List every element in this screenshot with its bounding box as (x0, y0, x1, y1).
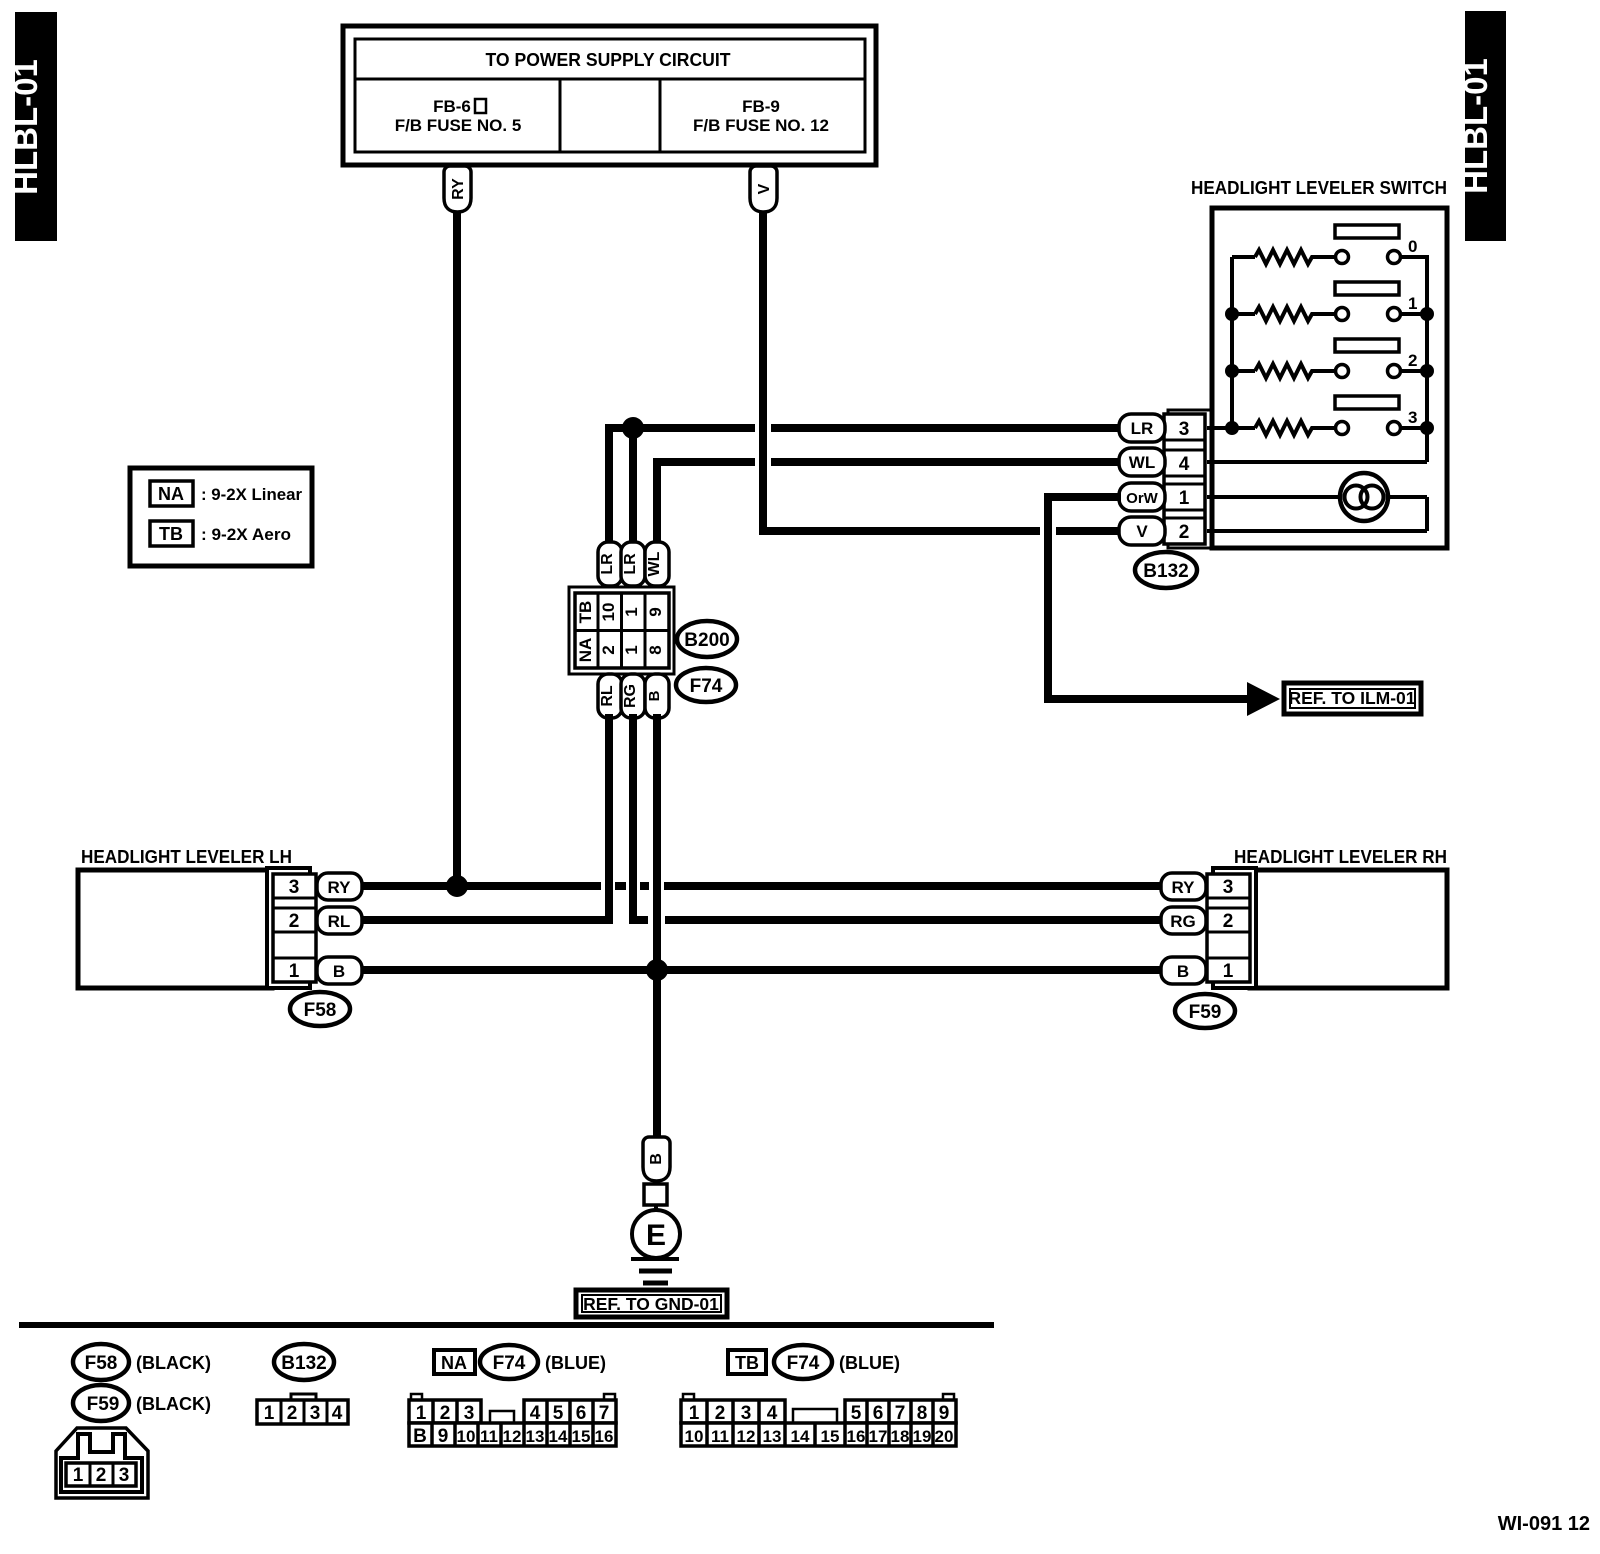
svg-text:B132: B132 (1143, 561, 1188, 582)
svg-text:3: 3 (741, 1403, 752, 1424)
svg-text:HLBL-01: HLBL-01 (1457, 58, 1494, 194)
svg-text:5: 5 (553, 1403, 564, 1424)
connector B200/F74 pin grid (569, 587, 674, 674)
svg-text:17: 17 (869, 1427, 888, 1446)
svg-text:7: 7 (599, 1403, 610, 1424)
svg-text:HLBL-01: HLBL-01 (7, 59, 44, 195)
switch terminal V (1119, 517, 1165, 545)
wire V vertical then right to switch pin 2 (759, 212, 1121, 535)
svg-text:NA: NA (158, 484, 184, 504)
legend oval F74 (TB) (774, 1345, 900, 1379)
legend label TB (728, 1350, 766, 1374)
svg-text:10: 10 (599, 603, 618, 622)
svg-text:(BLACK): (BLACK) (136, 1353, 211, 1373)
svg-text:15: 15 (572, 1427, 591, 1446)
svg-text:1: 1 (264, 1403, 275, 1424)
svg-text:B: B (646, 690, 663, 701)
wire B vertical down to ground branch (653, 714, 661, 1137)
wire B distribution row (362, 966, 1161, 974)
svg-text:2: 2 (599, 645, 618, 654)
svg-text:RG: RG (1170, 912, 1196, 931)
legend connector F74 20-pin face (TB) (681, 1394, 956, 1446)
svg-text:OrW: OrW (1126, 490, 1159, 507)
svg-text:1: 1 (416, 1403, 427, 1424)
RH pin connector offset box (1213, 868, 1256, 988)
oval F58 (290, 992, 350, 1026)
svg-text:6: 6 (873, 1403, 884, 1424)
svg-text:10: 10 (685, 1427, 704, 1446)
svg-text:E: E (646, 1219, 666, 1252)
LH pin connector offset box (267, 868, 310, 988)
legend connector F74 16-pin face (NA) (409, 1394, 616, 1447)
svg-text:1: 1 (689, 1403, 700, 1424)
svg-text:WL: WL (646, 551, 663, 576)
svg-text:2: 2 (440, 1403, 451, 1424)
wire RY vertical from fuse to junction (453, 212, 461, 886)
LH terminal RY (317, 873, 362, 900)
svg-text:F74: F74 (493, 1353, 526, 1374)
svg-text:12: 12 (737, 1427, 756, 1446)
svg-text:(BLUE): (BLUE) (545, 1353, 606, 1373)
svg-text:16: 16 (847, 1427, 866, 1446)
ref box ILM-01 (1284, 683, 1421, 714)
svg-text:HEADLIGHT LEVELER SWITCH: HEADLIGHT LEVELER SWITCH (1191, 178, 1447, 198)
wire RY distribution row (362, 882, 1161, 890)
svg-text:2: 2 (289, 911, 300, 932)
svg-text:NA: NA (576, 638, 595, 663)
svg-text:5: 5 (851, 1403, 862, 1424)
svg-text:1: 1 (73, 1465, 84, 1486)
svg-text:B: B (1177, 962, 1189, 981)
resistor row 3 (1207, 396, 1434, 435)
legend box NA/TB (130, 468, 312, 566)
resistor row 0 (1232, 225, 1417, 264)
svg-text:B: B (413, 1426, 427, 1447)
svg-text:3: 3 (464, 1403, 475, 1424)
illumination lamp symbol (1340, 473, 1388, 521)
svg-text:3: 3 (310, 1403, 321, 1424)
svg-text:9: 9 (438, 1426, 449, 1447)
LH terminal RL (317, 907, 362, 934)
ref box GND-01 (576, 1290, 727, 1317)
svg-text:RY: RY (450, 178, 467, 200)
svg-text:9: 9 (646, 607, 665, 616)
svg-text:(BLACK): (BLACK) (136, 1394, 211, 1414)
wire RL vertical + elbow left to LH pin 2 (362, 714, 613, 924)
svg-text:: 9-2X Aero: : 9-2X Aero (201, 525, 291, 544)
svg-text:B: B (648, 1153, 665, 1165)
svg-text:F/B FUSE NO. 5: F/B FUSE NO. 5 (395, 116, 522, 135)
svg-text:RG: RG (622, 684, 639, 708)
svg-text:V: V (756, 183, 773, 194)
svg-text:1: 1 (1408, 294, 1417, 313)
power supply box (343, 26, 876, 165)
connector terminal RY (fuse FB-6) (444, 166, 471, 212)
svg-text:(BLUE): (BLUE) (839, 1353, 900, 1373)
legend oval F58 (73, 1344, 211, 1380)
switch terminal OrW (1119, 483, 1165, 511)
svg-text:F74: F74 (690, 676, 723, 697)
svg-text:F/B FUSE NO. 12: F/B FUSE NO. 12 (693, 116, 829, 135)
svg-text:18: 18 (891, 1427, 910, 1446)
wire LR (B200 pin1 branch) vertical (629, 428, 637, 546)
svg-text:4: 4 (332, 1403, 343, 1424)
svg-text:4: 4 (1179, 454, 1190, 475)
RH terminal RG (1161, 907, 1206, 934)
connector B200/F74 inline: upper terminals LR LR WL (598, 542, 669, 586)
svg-text:14: 14 (791, 1427, 810, 1446)
svg-text:LR: LR (622, 553, 639, 575)
LH pin cells (273, 874, 316, 982)
svg-text:WI-091 12: WI-091 12 (1498, 1513, 1590, 1535)
svg-text:F58: F58 (85, 1353, 118, 1374)
ground E circle (632, 1205, 680, 1258)
svg-text:11: 11 (711, 1427, 729, 1446)
svg-text:20: 20 (935, 1427, 954, 1446)
svg-text:F59: F59 (1189, 1002, 1222, 1023)
junction dot RY (446, 875, 468, 897)
svg-text:15: 15 (821, 1427, 840, 1446)
RH pin cells (1207, 874, 1250, 982)
svg-text:1: 1 (289, 961, 300, 982)
svg-text:3: 3 (1408, 408, 1417, 427)
legend connector B132 4-pin face (257, 1394, 348, 1424)
svg-text:B: B (333, 962, 345, 981)
junction dot LR (622, 417, 644, 439)
svg-text:1: 1 (622, 645, 641, 654)
headlight leveler LH box (78, 847, 292, 988)
svg-text:12: 12 (503, 1427, 522, 1446)
svg-text:0: 0 (1408, 237, 1417, 256)
svg-text:REF. TO GND-01: REF. TO GND-01 (583, 1294, 719, 1314)
svg-text:2: 2 (1223, 911, 1234, 932)
svg-text:B200: B200 (684, 630, 729, 651)
switch terminal LR (1119, 414, 1165, 442)
svg-text:V: V (1136, 522, 1148, 541)
RH terminal B (1161, 957, 1206, 984)
resistor row 1 (1225, 282, 1434, 321)
svg-text:14: 14 (549, 1427, 568, 1446)
svg-text:8: 8 (917, 1403, 928, 1424)
connector terminal V (fuse FB-9) (750, 166, 777, 212)
wire OrW from switch pin 1 to ILM-01 (1044, 493, 1248, 703)
wire RG vertical + elbow right to RH pin 2 (629, 714, 1161, 924)
oval B200 (677, 621, 737, 657)
svg-text:F74: F74 (787, 1353, 820, 1374)
svg-text:2: 2 (1179, 522, 1190, 543)
svg-text:13: 13 (763, 1427, 782, 1446)
svg-text:1: 1 (1179, 488, 1190, 509)
svg-text:HEADLIGHT LEVELER LH: HEADLIGHT LEVELER LH (81, 847, 292, 867)
svg-text:TB: TB (159, 524, 183, 544)
switch wiper common to pin 4 (1207, 460, 1427, 464)
RH terminal RY (1161, 873, 1206, 900)
svg-text:F58: F58 (304, 1000, 337, 1021)
wire WL elbow and horizontal run to switch pin 4 (653, 458, 1121, 546)
svg-text:RY: RY (1172, 878, 1196, 897)
svg-text:TB: TB (576, 601, 595, 624)
legend connector F58/F59 3-pin face (56, 1428, 148, 1498)
oval F74 (676, 668, 736, 702)
svg-text:2: 2 (287, 1403, 298, 1424)
svg-text:2: 2 (96, 1465, 107, 1486)
svg-text:10: 10 (457, 1427, 476, 1446)
connector B200/F74 inline: lower terminals RL RG B (598, 674, 669, 718)
legend oval F59 (73, 1385, 211, 1421)
svg-text:FB-6: FB-6 (433, 97, 471, 116)
svg-text:7: 7 (895, 1403, 906, 1424)
svg-text:4: 4 (767, 1403, 778, 1424)
svg-text:LR: LR (599, 553, 616, 575)
arrowhead to ILM-01 (1247, 682, 1280, 716)
svg-text:19: 19 (913, 1427, 932, 1446)
switch right bus (1400, 257, 1427, 462)
svg-text:3: 3 (119, 1465, 130, 1486)
svg-text:RL: RL (599, 685, 616, 707)
svg-text:9: 9 (939, 1403, 950, 1424)
svg-text:4: 4 (530, 1403, 541, 1424)
svg-text:3: 3 (1179, 419, 1190, 440)
legend oval B132 (274, 1344, 334, 1380)
page label HLBL-01 left (7, 12, 57, 241)
ground symbol (631, 1259, 679, 1283)
ground connector cell (644, 1184, 667, 1205)
svg-text:FB-9: FB-9 (742, 97, 780, 116)
svg-text:6: 6 (576, 1403, 587, 1424)
switch pin connector B132: pin cells (1164, 414, 1205, 544)
svg-text:11: 11 (480, 1427, 498, 1446)
svg-text:13: 13 (526, 1427, 545, 1446)
svg-text:1: 1 (1223, 961, 1234, 982)
junction dot B (646, 959, 668, 981)
svg-text:F59: F59 (87, 1394, 120, 1415)
svg-text:3: 3 (1223, 877, 1234, 898)
legend label NA (434, 1350, 475, 1374)
svg-text:8: 8 (646, 645, 665, 654)
svg-text:B132: B132 (281, 1353, 326, 1374)
svg-text:WL: WL (1129, 453, 1155, 472)
svg-text:2: 2 (715, 1403, 726, 1424)
svg-text:16: 16 (595, 1427, 614, 1446)
wire LR (B200 pin10 branch) elbow up to horizontal run (605, 424, 1121, 546)
switch terminal WL (1119, 448, 1165, 476)
bottom separator line (19, 1322, 994, 1328)
switch resistor ladder: left bus (1230, 257, 1234, 428)
svg-text:RY: RY (328, 878, 352, 897)
svg-text:HEADLIGHT LEVELER RH: HEADLIGHT LEVELER RH (1234, 847, 1447, 867)
svg-text:NA: NA (441, 1353, 467, 1373)
terminal B pendant above ground (643, 1137, 670, 1181)
legend oval F74 (NA) (480, 1345, 606, 1379)
svg-text:3: 3 (289, 877, 300, 898)
svg-text:1: 1 (622, 607, 641, 616)
svg-text:TO POWER SUPPLY CIRCUIT: TO POWER SUPPLY CIRCUIT (486, 50, 731, 70)
headlight leveler RH box (1234, 847, 1447, 988)
svg-text:RL: RL (328, 912, 351, 931)
svg-text:: 9-2X Linear: : 9-2X Linear (201, 485, 302, 504)
oval B132 (1135, 552, 1197, 588)
illumination lamp circuit inside switch (1207, 497, 1427, 531)
oval F59 (1175, 994, 1235, 1028)
resistor row 2 (1225, 339, 1434, 378)
headlight leveler switch box (1191, 178, 1447, 548)
svg-text:2: 2 (1408, 351, 1417, 370)
switch pin connector B132: offset box (1168, 410, 1213, 548)
svg-text:LR: LR (1131, 419, 1154, 438)
LH terminal B (317, 957, 362, 984)
svg-text:REF. TO ILM-01: REF. TO ILM-01 (1288, 688, 1415, 708)
svg-text:TB: TB (735, 1353, 759, 1373)
page label HLBL-01 right (1457, 11, 1506, 241)
